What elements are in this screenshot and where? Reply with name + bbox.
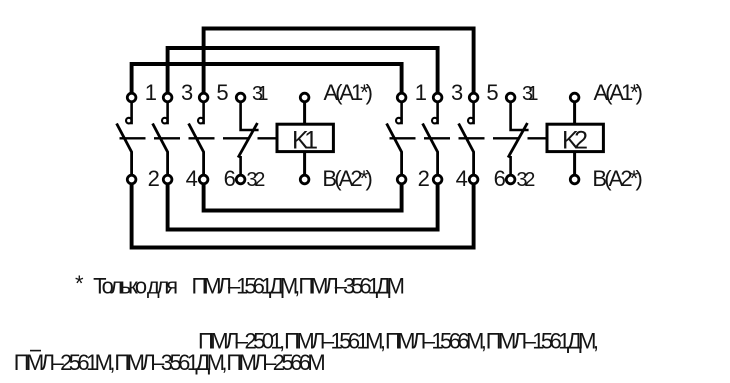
svg-text:K2: K2 (562, 127, 588, 155)
svg-text:2: 2 (418, 166, 430, 191)
svg-text:*: * (75, 271, 84, 296)
svg-text:6: 6 (224, 166, 236, 191)
svg-text:4: 4 (186, 166, 198, 191)
svg-text:B(A2*): B(A2*) (592, 166, 642, 191)
svg-text:2: 2 (148, 166, 160, 191)
svg-text:6: 6 (494, 166, 506, 191)
svg-text:1: 1 (415, 80, 427, 105)
svg-text:B(A2*): B(A2*) (322, 166, 372, 191)
svg-text:5: 5 (486, 80, 498, 105)
svg-text:4: 4 (456, 166, 468, 191)
svg-text:K1: K1 (292, 127, 318, 155)
svg-text:31: 31 (522, 83, 539, 105)
svg-text:3: 3 (181, 80, 193, 105)
svg-text:Только для: Только для (93, 273, 178, 298)
svg-text:1: 1 (145, 80, 157, 105)
svg-text:32: 32 (516, 169, 535, 191)
svg-text:5: 5 (216, 80, 228, 105)
svg-text:A(A1*): A(A1*) (594, 80, 644, 105)
svg-text:A(A1*): A(A1*) (324, 80, 374, 105)
svg-text:ПМЛ–2561М, ПМЛ–3561ДМ, ПМЛ–256: ПМЛ–2561М, ПМЛ–3561ДМ, ПМЛ–2566М (14, 350, 326, 375)
svg-text:32: 32 (246, 169, 265, 191)
svg-text:ПМЛ–1561ДМ, ПМЛ–3561ДМ: ПМЛ–1561ДМ, ПМЛ–3561ДМ (192, 273, 406, 298)
svg-text:3: 3 (451, 80, 463, 105)
svg-text:31: 31 (252, 83, 269, 105)
